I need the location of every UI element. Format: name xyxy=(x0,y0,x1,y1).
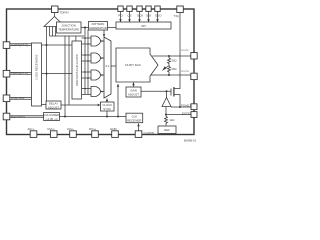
wire mosfet source to fsadj node xyxy=(174,95,180,108)
REF block xyxy=(158,126,176,134)
clock sync block xyxy=(101,102,115,111)
svg-text:LVDS RECEIVERS: LVDS RECEIVERS xyxy=(35,55,39,80)
wire pin SCLK to SPI xyxy=(139,11,141,22)
svg-text:1kΩ: 1kΩ xyxy=(170,118,175,122)
wire resistor divider bottom segment xyxy=(168,73,170,75)
svg-text:DAP/N[15:0]: DAP/N[15:0] xyxy=(11,43,28,47)
wire CLKP/N pin to clk receiver xyxy=(138,124,140,132)
wire ref resistor bottom xyxy=(165,124,167,126)
svg-text:50Ω: 50Ω xyxy=(172,67,177,71)
svg-text:B0368-01: B0368-01 xyxy=(184,139,197,143)
arrow SCLK into SPI xyxy=(138,19,141,22)
wire clock sync down to clock rail xyxy=(106,111,108,117)
svg-text:ADJUST: ADJUST xyxy=(48,105,59,109)
svg-text:EXTIO: EXTIO xyxy=(182,111,192,115)
svg-text:4:1: 4:1 xyxy=(106,64,110,68)
junction dots xyxy=(46,27,182,118)
svg-text:GENERATOR: GENERATOR xyxy=(89,26,106,30)
resistors xyxy=(165,58,171,124)
arrow delay path into clock sync xyxy=(98,104,101,107)
wire gain adjust to mosfet gate xyxy=(141,90,171,92)
wire DA pair line 2 xyxy=(10,45,32,47)
wire DCKO pair line 2 xyxy=(10,116,44,118)
arrow clk pin to receiver xyxy=(137,124,140,127)
wire clock branch to rail xyxy=(64,36,66,117)
pin IOUTN xyxy=(191,73,197,79)
wire clock rail branch up to DAC xyxy=(117,84,119,117)
wire gate4 output to mux xyxy=(100,91,104,93)
delay adjust block xyxy=(46,101,61,109)
svg-text:SDI: SDI xyxy=(146,13,151,17)
mid-node tap arrow on resistor divider xyxy=(163,66,169,71)
wire pattern bus B vertical xyxy=(87,30,89,95)
pin FSADJ xyxy=(191,104,197,110)
pin IOUTP xyxy=(191,53,197,59)
wire resistor divider top segment xyxy=(168,56,170,58)
wire delay adjust to clock sync xyxy=(61,104,100,106)
DDR flip-flops block xyxy=(72,41,82,99)
block texts xyxy=(35,22,171,132)
chip outline border xyxy=(7,9,195,135)
clk receiver block xyxy=(126,113,143,123)
svg-text:SYNCP/N: SYNCP/N xyxy=(11,97,24,101)
junction temperature block U-TEMP xyxy=(57,22,82,33)
svg-text:16-BIT DAC: 16-BIT DAC xyxy=(125,63,142,67)
arrow SDIO into SPI xyxy=(147,19,150,22)
wire pattern generator to mux top xyxy=(103,30,105,37)
wire clock sync up to mux xyxy=(106,99,108,103)
svg-text:DCKOP/N: DCKOP/N xyxy=(11,115,25,119)
wire LVDS to DDR data bus 1 xyxy=(42,44,73,46)
wire DB pair line 2 xyxy=(10,73,32,75)
op-amp A1 xyxy=(162,98,171,107)
pin AGND xyxy=(70,131,77,138)
wire DAC output IOUTN xyxy=(151,74,191,76)
svg-text:REF: REF xyxy=(164,128,170,132)
pin GND xyxy=(112,131,119,138)
wire clock stub into DDR flip-flops xyxy=(75,36,77,41)
pin squares xyxy=(3,6,197,137)
svg-text:RECEIVER: RECEIVER xyxy=(127,119,141,123)
arrow gain adjust to DAC xyxy=(132,83,135,86)
wire resistor divider mid segment xyxy=(168,65,170,67)
pin CLKP/N xyxy=(135,131,142,138)
clock fanout triangle xyxy=(44,17,65,27)
svg-text:TDP/N: TDP/N xyxy=(60,11,69,15)
wire pattern bus A vertical xyxy=(84,28,86,95)
arrowheads xyxy=(98,19,159,126)
svg-text:SDO: SDO xyxy=(155,13,162,17)
pin AVDD xyxy=(30,131,37,138)
svg-text:DDR DATA FLIP-FLOPS: DDR DATA FLIP-FLOPS xyxy=(75,54,79,86)
wires group xyxy=(10,11,191,131)
wire clock distribution horizontal xyxy=(50,35,85,37)
pin TXENABLE xyxy=(177,6,184,13)
pin TDP/N xyxy=(52,6,59,13)
latch gate 2 xyxy=(91,53,101,63)
wire DAC output IOUTP xyxy=(152,55,191,57)
arrow PD into SPI xyxy=(119,19,122,22)
wire clock line 4 (triangle leg) xyxy=(55,27,57,37)
wire EXTIO line xyxy=(166,114,191,116)
wire opamp plus input down xyxy=(165,107,167,115)
wire LVDS to DDR data bus 2 xyxy=(42,73,73,75)
wire gate2 output to mux xyxy=(100,57,104,59)
wire DA pair line 1 xyxy=(10,43,32,45)
wire clock line 1 (triangle to delay adjust) xyxy=(46,27,48,102)
pin CS xyxy=(127,6,132,11)
mosfet Q1 xyxy=(171,87,174,97)
LVDS receivers block xyxy=(32,43,42,106)
wire clock rail xyxy=(59,116,126,118)
wire pin CS to SPI xyxy=(129,11,131,22)
pin DCKOP/N xyxy=(3,113,10,120)
wire FSADJ line xyxy=(171,106,191,108)
pin SYNCP/N xyxy=(3,95,10,102)
resistor ref bias xyxy=(165,117,168,125)
gain adjust block xyxy=(126,87,141,97)
wire ref resistor top xyxy=(165,115,167,117)
wire TXENABLE down to mosfet xyxy=(174,13,180,89)
pin DBP/N xyxy=(3,70,10,77)
pin SDO xyxy=(155,6,160,11)
pin SCLK xyxy=(137,6,142,11)
wire clock line 3 (triangle leg) xyxy=(52,27,54,37)
DAC 16-bit block xyxy=(116,48,158,82)
arrow pattern gen to mux xyxy=(103,34,106,37)
resistor 50ohm upper xyxy=(168,58,171,65)
svg-text:CLK DIVIDER: CLK DIVIDER xyxy=(44,114,59,117)
wire SYNC pair line 1 xyxy=(10,96,32,98)
wire gain adjust up to DAC xyxy=(133,83,135,88)
wire gate1 output to mux xyxy=(100,40,104,42)
arrow clock rail to DAC xyxy=(117,84,120,87)
pin PD xyxy=(118,6,123,11)
pin DAP/N xyxy=(3,42,10,49)
svg-text:DBP/N[15:0]: DBP/N[15:0] xyxy=(11,72,28,76)
svg-text:(÷2 OR ÷4): (÷2 OR ÷4) xyxy=(46,118,58,121)
wire pin SDIO to SPI xyxy=(148,11,150,22)
svg-text:50Ω: 50Ω xyxy=(172,59,177,63)
svg-text:SPI: SPI xyxy=(141,24,146,28)
svg-text:CS: CS xyxy=(127,13,131,17)
arrow SDO into SPI xyxy=(156,19,159,22)
mux 4:1 xyxy=(104,37,111,98)
latch gate 4 xyxy=(91,87,101,97)
pin EXTIO xyxy=(191,112,197,118)
pin DGND xyxy=(92,131,99,138)
pattern generator block xyxy=(89,22,108,31)
wire clock branch to clock sync xyxy=(68,36,70,105)
wire pin PD to SPI xyxy=(120,11,122,22)
wire gate input stubs xyxy=(82,38,92,95)
wire junction temp to SPI xyxy=(81,27,116,29)
clk divider block xyxy=(44,113,60,121)
SPI block xyxy=(116,22,171,29)
resistor 50ohm lower xyxy=(168,67,171,74)
component shapes xyxy=(32,17,177,134)
wire SYNC pair line 2 xyxy=(10,98,32,100)
latch gate 3 xyxy=(91,70,101,80)
wire DCKO pair line 1 xyxy=(10,115,44,117)
arrow clock sync to mux xyxy=(106,99,109,102)
wire gate3 output to mux xyxy=(100,74,104,76)
arrow CS into SPI xyxy=(128,19,131,22)
wire clock line 2 (triangle leg) xyxy=(49,27,51,37)
wire TDP/N pin to clock triangle xyxy=(54,13,56,17)
svg-text:SCK: SCK xyxy=(137,13,143,17)
svg-text:TEMPERATURE: TEMPERATURE xyxy=(58,28,79,32)
wire mux output to DAC xyxy=(111,65,116,67)
svg-text:FSADJ: FSADJ xyxy=(181,104,191,108)
svg-text:SYNC: SYNC xyxy=(103,107,111,111)
wire LVDS to delay adjust xyxy=(42,104,47,106)
svg-text:TXp: TXp xyxy=(174,14,180,18)
pin SDIO xyxy=(146,6,151,11)
wire DB pair line 1 xyxy=(10,71,32,73)
latch gate 1 xyxy=(91,36,101,46)
wire pin SDO to SPI xyxy=(157,11,159,22)
svg-text:GND: GND xyxy=(110,127,118,131)
pin DVDD xyxy=(50,131,57,138)
wire opamp output up xyxy=(166,91,168,97)
svg-text:CLKP/N: CLKP/N xyxy=(144,131,155,135)
svg-text:ADJUST: ADJUST xyxy=(128,93,139,97)
